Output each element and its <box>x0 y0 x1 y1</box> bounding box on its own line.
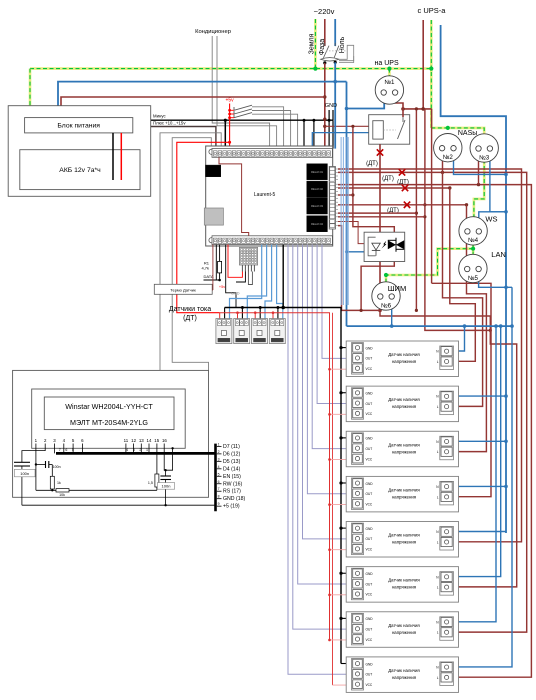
svg-text:GND: GND <box>366 482 374 486</box>
board bottom terminal strip <box>212 236 332 245</box>
svg-text:Датчик наличия: Датчик наличия <box>388 578 420 583</box>
LCD display box <box>32 389 186 448</box>
LED D1 in optotriac <box>372 243 381 250</box>
svg-text:DATA: DATA <box>204 274 214 279</box>
svg-text:GND: GND <box>366 572 374 576</box>
svg-text:+5 (19): +5 (19) <box>223 504 240 510</box>
resistor R2 1k <box>51 465 53 477</box>
triac VS1 symbol <box>388 240 396 249</box>
wire optotriac output to PWM socket <box>361 262 394 311</box>
svg-text:1,5: 1,5 <box>148 481 153 485</box>
wire relay row9 to PWM feed <box>338 226 361 311</box>
svg-text:1: 1 <box>146 448 148 452</box>
wire LCD pin2 to cap <box>22 444 45 463</box>
svg-text:L: L <box>437 586 439 590</box>
svg-text:LAN: LAN <box>491 250 506 259</box>
wire socket2 neutral <box>454 152 507 174</box>
current transformer mark DT1 <box>377 149 383 155</box>
switch S3 sensor contact <box>234 113 252 118</box>
wire relay row3 to socket3 and sensor8 <box>338 185 531 678</box>
voltage sensor module #7 <box>346 612 458 648</box>
svg-text:№1: №1 <box>384 79 395 86</box>
socket No1 <box>375 76 403 104</box>
svg-text:Плюс +10...+15v: Плюс +10...+15v <box>153 120 186 125</box>
wire earth to sockets 2-3-4 <box>431 128 484 217</box>
svg-text:6: 6 <box>218 480 220 484</box>
svg-text:RW (16): RW (16) <box>223 481 242 487</box>
wire +5 second rail <box>332 313 334 685</box>
wire earth from c UPS-a <box>430 20 433 128</box>
svg-text:RELAY-01: RELAY-01 <box>311 170 323 174</box>
wire Minus bus from PSU <box>133 119 333 121</box>
wire Minus stubs to board GND terminals <box>303 120 305 148</box>
svg-text:D6 (12): D6 (12) <box>223 451 241 457</box>
svg-text:7: 7 <box>218 487 220 491</box>
board right terminal column <box>329 167 335 230</box>
svg-text:Датчик наличия: Датчик наличия <box>388 352 420 357</box>
svg-text:100n: 100n <box>20 471 29 476</box>
LCD outer box <box>13 370 209 497</box>
svg-text:Земля: Земля <box>309 33 316 54</box>
wire optotriac led neutral <box>347 251 369 253</box>
LCD data bus thick wire <box>56 452 216 455</box>
wire LCD GND feed <box>160 133 221 371</box>
connector pin 2 D6 (12) <box>217 453 222 455</box>
resistor R1 4.7k <box>219 245 221 262</box>
svg-text:№3: №3 <box>479 154 490 161</box>
svg-text:ШИМ: ШИМ <box>388 284 407 293</box>
wire relay row2 to socket2 and sensor7 <box>338 172 527 632</box>
svg-text:напряжения: напряжения <box>392 675 417 680</box>
connector pin 3 D5 (13) <box>217 460 222 462</box>
wire Konditsioner leads <box>212 36 269 149</box>
LCD connector bar <box>214 444 217 512</box>
optocoupler triac module U2 <box>364 232 405 261</box>
relay REL4 on board <box>307 216 328 232</box>
socket No4 <box>459 217 487 245</box>
svg-text:12: 12 <box>131 438 136 443</box>
wire thermo GND <box>226 245 236 308</box>
svg-text:Датчик наличия: Датчик наличия <box>388 533 420 538</box>
relay REL3 on board <box>307 198 328 214</box>
wire relay K1 common from UPS bus <box>402 109 404 117</box>
connector pin 5 EN (15) <box>217 475 222 477</box>
svg-text:1k: 1k <box>57 481 61 485</box>
voltage sensor module #1 <box>346 341 458 377</box>
switch S2 sensor contact <box>234 109 252 114</box>
svg-text:~220v: ~220v <box>314 7 335 16</box>
wire socket1 phase <box>395 95 403 109</box>
svg-text:15: 15 <box>154 438 159 443</box>
wire +5v feed loop to current sensors rail <box>177 142 230 312</box>
socket No2 <box>434 134 462 162</box>
wire blue to current sensor2 <box>247 245 266 319</box>
svg-text:GND: GND <box>231 292 240 296</box>
capacitor C3 100n <box>160 475 171 477</box>
svg-text:OUT: OUT <box>366 492 373 496</box>
PSU Blok pitaniya box <box>25 118 133 133</box>
svg-text:напряжения: напряжения <box>392 449 417 454</box>
svg-text:VCC: VCC <box>366 593 373 597</box>
wire sensor5 N feed <box>453 531 507 533</box>
wire LCD pin1 <box>35 444 37 491</box>
current sensor ACS712 #3 <box>252 319 268 344</box>
svg-text:10k: 10k <box>59 493 65 497</box>
svg-text:100n: 100n <box>162 484 171 489</box>
wire socket6 neutral stub <box>391 299 393 327</box>
wire earth main horizontal bus <box>30 67 431 70</box>
svg-text:Минус: Минус <box>153 114 166 119</box>
wire earth socket4 to socket5 and 6 <box>472 245 475 255</box>
wire UPS neutral down and over <box>441 25 506 533</box>
wire blue to current sensor3 <box>265 245 272 319</box>
wire +5 stubs to voltage sensors <box>330 368 352 370</box>
wire internal phase sense <box>219 157 249 236</box>
wire relay coil neutral to board <box>312 133 373 149</box>
wire GND rail to connector <box>22 504 216 506</box>
light blue sensor wires right of board <box>340 137 342 305</box>
wire sockets4-5 phase chain down <box>453 205 487 452</box>
svg-text:7: 7 <box>59 448 61 452</box>
svg-text:GND: GND <box>366 346 374 350</box>
relay REL2 on board <box>307 181 328 197</box>
switch S1 sensor contact <box>234 105 252 110</box>
svg-text:VCC: VCC <box>366 502 373 506</box>
wire sensor7 N feed <box>453 326 497 622</box>
svg-text:OUT: OUT <box>366 582 373 586</box>
svg-text:GND: GND <box>366 617 374 621</box>
power supply unit outer box <box>8 106 151 197</box>
capacitor C2 100n <box>45 461 47 468</box>
svg-text:+5v: +5v <box>225 98 234 104</box>
current transformer mark DT2 <box>399 169 405 175</box>
svg-text:МЭЛТ MT-20S4M-2YLG: МЭЛТ MT-20S4M-2YLG <box>70 418 148 427</box>
wire sensor8 N feed <box>453 287 513 667</box>
svg-text:Датчик наличия: Датчик наличия <box>388 623 420 628</box>
svg-text:№6: №6 <box>381 302 392 309</box>
svg-text:9: 9 <box>218 502 220 506</box>
wire relay row6 to socket4-5 <box>338 204 467 206</box>
wire neutral branch to socket1 and PWM bus <box>335 81 346 83</box>
wire sensor1 N feed <box>453 326 465 351</box>
wire DATA <box>204 279 220 281</box>
svg-text:6: 6 <box>65 448 67 452</box>
wire LCD +5 feed <box>172 138 211 371</box>
wire UPS aux phase to sensor4 <box>432 283 491 496</box>
wire UPS phase bus to relay and socket1 <box>403 108 432 110</box>
svg-text:напряжения: напряжения <box>392 494 417 499</box>
voltage sensor module #5 <box>346 522 458 558</box>
svg-text:5: 5 <box>218 472 220 476</box>
board IC chip <box>206 165 221 177</box>
svg-text:Кондиционер: Кондиционер <box>195 29 231 35</box>
svg-text:1: 1 <box>218 442 220 446</box>
wire GND bus black <box>282 245 284 308</box>
svg-text:L: L <box>437 631 439 635</box>
voltage sensor module #8 <box>346 657 458 693</box>
wire DHT data <box>248 272 252 285</box>
wire relay row7 <box>338 212 416 214</box>
resistor R3 10k <box>56 489 69 492</box>
connector pin 4 D4 (14) <box>217 468 222 470</box>
wire LCD pin16 backlight <box>164 444 172 471</box>
svg-text:OUT: OUT <box>366 447 373 451</box>
relay REL1 on board <box>307 164 328 180</box>
wire mains phase to optotriac <box>353 126 394 232</box>
connector pin 8 GND (18) <box>217 498 222 500</box>
svg-text:L: L <box>437 450 439 454</box>
wire +5v rail for sensors switches <box>229 104 231 149</box>
wire blue to current sensor4 <box>277 245 283 319</box>
socket No6 <box>372 282 400 310</box>
resistor R4 1.5 <box>156 444 158 475</box>
wire sensor6 N feed <box>453 326 501 576</box>
svg-text:OUT: OUT <box>366 627 373 631</box>
svg-text:+5v: +5v <box>219 285 225 289</box>
light arrow symbol <box>382 241 387 249</box>
svg-text:3: 3 <box>218 457 220 461</box>
wire PWM left hole stub <box>379 299 381 311</box>
wire socket3 phase drop <box>478 152 480 185</box>
svg-text:с UPS-а: с UPS-а <box>418 6 447 15</box>
wire relay row8 <box>338 216 425 218</box>
wire phase branch to PSU <box>61 97 325 118</box>
svg-text:Термо Датчик: Термо Датчик <box>170 287 196 292</box>
wire socket3 neutral <box>490 152 506 212</box>
connector pin 7 RS (17) <box>217 490 222 492</box>
wire relay K1 output down to PWM socket <box>379 144 381 310</box>
svg-text:2: 2 <box>218 450 220 454</box>
wire phase below breaker <box>324 63 326 149</box>
current sensor ACS712 #1 <box>216 319 232 344</box>
svg-text:АКБ 12v 7а*ч: АКБ 12v 7а*ч <box>59 167 101 174</box>
svg-text:OUT: OUT <box>366 357 373 361</box>
svg-text:OUT: OUT <box>366 402 373 406</box>
wire Plus bus from PSU <box>133 127 216 149</box>
wire neutral below breaker <box>334 62 336 81</box>
svg-text:Laurent-5: Laurent-5 <box>254 192 276 198</box>
wire GND stubs to voltage sensors <box>341 347 352 349</box>
svg-text:14: 14 <box>147 438 152 443</box>
wire battery plus <box>120 133 122 180</box>
svg-text:L: L <box>437 676 439 680</box>
svg-text:OUT: OUT <box>366 673 373 677</box>
wire Minus main drop into board <box>224 120 226 148</box>
wire battery minus <box>112 133 114 180</box>
wire phase branch to relay coil <box>325 125 373 127</box>
wire DHT gnd <box>236 272 245 283</box>
wire neutral main bus to PSU <box>58 82 335 118</box>
relay K1 box <box>369 115 410 145</box>
svg-text:Датчик наличия: Датчик наличия <box>388 397 420 402</box>
wire neutral to socket1 left hole <box>347 95 385 109</box>
svg-text:RELAY-03: RELAY-03 <box>311 204 323 208</box>
wire +5 stubs to current sensors <box>219 313 221 319</box>
svg-text:L: L <box>437 360 439 364</box>
svg-text:D7 (11): D7 (11) <box>223 444 240 450</box>
wire GND pair label stubs <box>328 110 330 120</box>
wire socket2 phase drop to sensor2 <box>443 152 483 406</box>
wire relay row4 via DT to sensor1 <box>338 187 450 189</box>
svg-text:(ДТ): (ДТ) <box>382 176 394 182</box>
voltage sensor module #4 <box>346 476 458 512</box>
LCD pin stubs <box>54 444 56 454</box>
svg-text:Блок питания: Блок питания <box>57 123 100 130</box>
wire GND stubs to current sensors <box>224 308 226 319</box>
wire sensor2 N feed <box>453 395 507 397</box>
svg-text:GND: GND <box>366 437 374 441</box>
svg-text:напряжения: напряжения <box>392 404 417 409</box>
wire +5 bus red <box>220 313 330 640</box>
svg-text:№4: №4 <box>468 237 479 244</box>
svg-text:11: 11 <box>124 438 129 443</box>
current transformer mark DT4 <box>404 202 410 208</box>
capacitor C1 100n <box>14 461 30 463</box>
wire earth to PSU <box>29 69 32 118</box>
current sensor ACS712 #2 <box>234 319 250 344</box>
svg-text:13: 13 <box>139 438 144 443</box>
svg-text:(ДТ): (ДТ) <box>366 161 378 167</box>
svg-text:RS (17): RS (17) <box>223 489 241 495</box>
relay K1 coil <box>373 121 384 139</box>
wire earth Zemlya drop to 220v input <box>314 19 317 69</box>
svg-text:RELAY-02: RELAY-02 <box>311 187 323 191</box>
wire neutral from 220v input <box>334 19 336 46</box>
wire PWM socket to sensor6 <box>380 310 517 587</box>
Laurent-5 controller board <box>206 146 333 246</box>
wire earth to socket 1 <box>388 69 391 77</box>
connector pin 9 +5 (19) <box>217 505 222 507</box>
svg-text:L: L <box>437 540 439 544</box>
svg-text:EN (15): EN (15) <box>223 474 241 480</box>
svg-text:Датчики тока: Датчики тока <box>169 306 211 313</box>
svg-text:напряжения: напряжения <box>392 359 417 364</box>
svg-text:D4 (14): D4 (14) <box>223 466 241 472</box>
battery AKB box <box>20 150 140 190</box>
svg-text:VCC: VCC <box>366 367 373 371</box>
humidity sensor DHT22 <box>239 247 257 265</box>
junction earth dots <box>313 67 317 71</box>
svg-text:Датчик наличия: Датчик наличия <box>388 442 420 447</box>
wire phase from 220v input <box>324 19 326 46</box>
current sensor ACS712 #4 <box>269 319 285 344</box>
svg-text:L: L <box>437 405 439 409</box>
svg-text:D5 (13): D5 (13) <box>223 459 241 465</box>
svg-text:8: 8 <box>218 495 220 499</box>
svg-text:GND: GND <box>366 392 374 396</box>
wire sensor4 N feed <box>453 485 507 487</box>
wire relay row1 to sensor5 <box>338 169 522 542</box>
svg-text:на UPS: на UPS <box>375 60 399 67</box>
wire sensor3 N feed <box>453 440 507 442</box>
svg-text:напряжения: напряжения <box>392 630 417 635</box>
wire optotriac drive from relay row10 <box>338 222 368 244</box>
svg-text:16: 16 <box>162 438 167 443</box>
board top terminal strip <box>212 149 332 158</box>
socket No3 <box>470 134 498 162</box>
svg-text:VCC: VCC <box>366 412 373 416</box>
svg-text:напряжения: напряжения <box>392 540 417 545</box>
voltage sensor module #6 <box>346 567 458 603</box>
svg-text:GND: GND <box>366 527 374 531</box>
svg-text:№5: №5 <box>468 275 479 282</box>
svg-text:VCC: VCC <box>366 457 373 461</box>
svg-text:NASы: NASы <box>458 130 477 137</box>
svg-text:VCC: VCC <box>366 683 373 687</box>
wire neutral into board <box>334 82 336 149</box>
svg-text:напряжения: напряжения <box>392 585 417 590</box>
svg-text:100n: 100n <box>53 465 61 469</box>
wire thermo +5v <box>212 245 214 291</box>
thermo sensor box <box>154 284 212 294</box>
circuit breaker QF1 two-pole <box>324 43 326 46</box>
svg-text:GND: GND <box>366 662 374 666</box>
wire phase distribution verticals from UPS bus <box>415 109 417 311</box>
svg-text:WS: WS <box>485 215 497 224</box>
wire relay row5 com <box>338 194 353 196</box>
svg-text:GND (18): GND (18) <box>223 496 245 502</box>
wire socket5 neutral to UPS bus <box>479 271 512 287</box>
svg-text:GND: GND <box>325 103 337 109</box>
svg-text:Датчик наличия: Датчик наличия <box>388 668 420 673</box>
relay K1 contact <box>398 120 406 139</box>
socket No5 <box>459 254 487 282</box>
LCD inner label box <box>44 397 174 430</box>
svg-text:4,7k: 4,7k <box>201 266 209 271</box>
voltage sensor module #3 <box>346 431 458 467</box>
wire blue to current sensor1 <box>230 245 262 319</box>
svg-text:Winstar WH2004L-YYH-CT: Winstar WH2004L-YYH-CT <box>65 402 153 411</box>
svg-text:4: 4 <box>218 465 220 469</box>
current transformer mark DT3 <box>402 185 408 191</box>
connector pin 6 RW (16) <box>217 483 222 485</box>
svg-text:VCC: VCC <box>366 548 373 552</box>
board ethernet jack <box>204 208 223 225</box>
wire mid rail <box>36 489 157 491</box>
svg-text:(ДТ): (ДТ) <box>183 315 197 322</box>
wire DHT vcc <box>228 245 242 278</box>
wire UPS phase down <box>422 20 424 109</box>
wire neutral PWM bus horizontal <box>347 325 513 327</box>
svg-text:Датчик наличия: Датчик наличия <box>388 487 420 492</box>
voltage sensor module #2 <box>346 386 458 422</box>
svg-text:L: L <box>437 495 439 499</box>
svg-text:VCC: VCC <box>366 638 373 642</box>
connector pin 1 D7 (11) <box>217 445 222 447</box>
wire socket4 neutral <box>479 212 506 234</box>
svg-text:№2: №2 <box>443 154 454 161</box>
svg-text:OUT: OUT <box>366 537 373 541</box>
svg-text:RELAY-04: RELAY-04 <box>311 222 323 226</box>
analog wires bundle to voltage sensors <box>322 245 347 359</box>
